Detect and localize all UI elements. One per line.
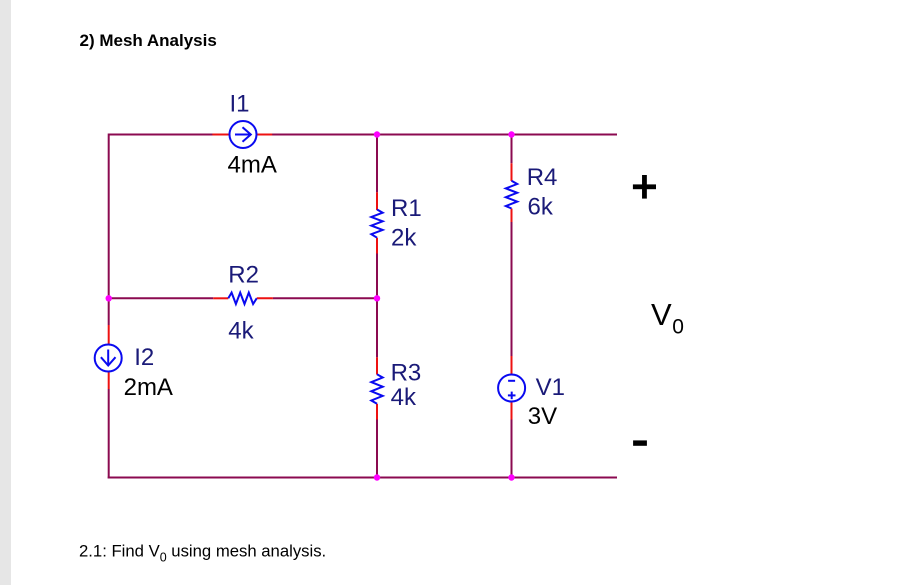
minus sign (Vo polarity): [633, 440, 647, 445]
wire right branch mid (R4 to V1): [511, 222, 513, 356]
wire right branch lower (V1 to bottom): [511, 420, 513, 478]
svg-text:R1: R1: [391, 195, 422, 222]
svg-text:3V: 3V: [528, 403, 557, 430]
current source I2: [95, 345, 122, 372]
pin lead I2 top: [108, 325, 110, 345]
svg-text:I2: I2: [134, 344, 154, 371]
svg-text:R2: R2: [228, 262, 259, 289]
pin lead I2 bottom: [108, 371, 110, 389]
node top of R4 branch: [508, 131, 514, 137]
pin lead R2 left: [213, 297, 228, 299]
pin lead R3 top: [376, 357, 378, 374]
svg-text:0: 0: [672, 316, 684, 339]
wire middle branch lower (R3 to bottom): [376, 420, 378, 478]
pin lead V1 bottom: [511, 402, 513, 420]
svg-text:V1: V1: [536, 374, 565, 401]
pin lead V1 top: [511, 356, 513, 375]
svg-text:2) Mesh Analysis: 2) Mesh Analysis: [80, 31, 217, 50]
wire top left segment: [109, 135, 213, 326]
svg-text:4k: 4k: [228, 318, 254, 345]
svg-text:2k: 2k: [391, 225, 417, 252]
wire right branch upper (node to R4): [511, 135, 513, 164]
plus sign (Vo polarity): [633, 175, 656, 199]
pin lead I1 right: [256, 134, 272, 136]
pin lead R4 top: [511, 163, 513, 181]
node bottom of V1 branch: [508, 474, 514, 480]
svg-text:4k: 4k: [391, 384, 417, 411]
svg-text:4mA: 4mA: [228, 152, 277, 179]
pin lead R4 bottom: [511, 209, 513, 223]
wire middle horizontal right (R2 to node): [273, 297, 377, 299]
node left of R2 branch: [106, 295, 112, 301]
wire middle branch upper (node to R1): [376, 135, 378, 193]
voltage source V1: [498, 375, 525, 402]
wire bottom: [108, 477, 617, 479]
pin lead R1 bottom: [376, 238, 378, 254]
svg-text:6k: 6k: [528, 194, 554, 221]
svg-text:R3: R3: [391, 360, 422, 387]
resistor R2: [228, 293, 256, 304]
pin lead I1 left: [212, 134, 230, 136]
pin lead R3 bottom: [376, 404, 378, 420]
pin lead R2 right: [257, 297, 273, 299]
wire left lower segment: [108, 389, 110, 479]
node bottom of R3 branch: [374, 474, 380, 480]
pin lead R1 top: [376, 192, 378, 210]
node top of R1 branch: [374, 131, 380, 137]
wire top right segment: [272, 134, 617, 136]
node right of R2 branch: [374, 295, 380, 301]
wire middle horizontal left (node to R2): [109, 297, 214, 299]
svg-text:I1: I1: [230, 91, 250, 118]
svg-text:V: V: [651, 297, 672, 332]
svg-text:2mA: 2mA: [124, 374, 173, 401]
wire middle branch mid (R1 to R3): [376, 254, 378, 358]
current source I1: [230, 121, 257, 148]
resistor R4: [506, 181, 517, 209]
resistor R1: [371, 210, 382, 238]
svg-text:R4: R4: [527, 164, 558, 191]
resistor R3: [371, 374, 382, 404]
